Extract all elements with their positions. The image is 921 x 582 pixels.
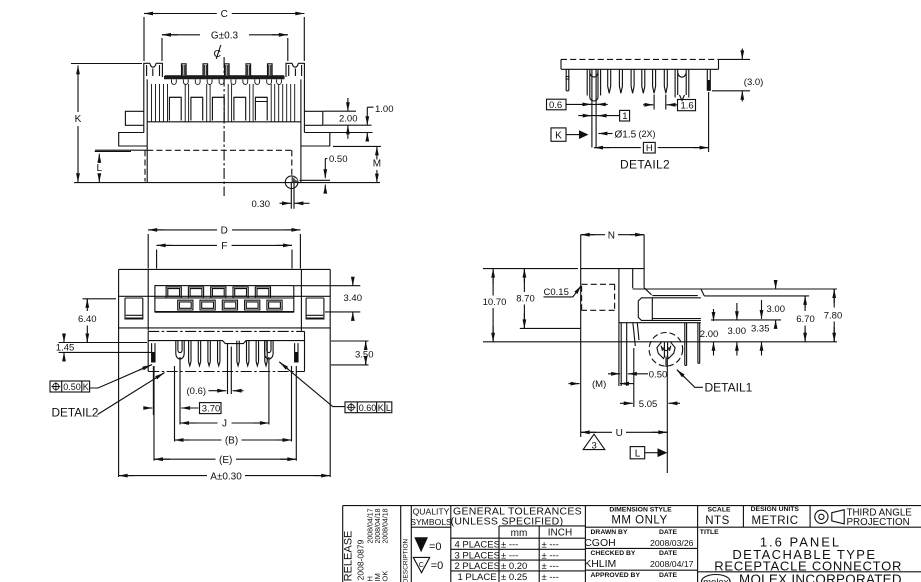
- block outline: [581, 235, 652, 437]
- dimension G±0.3: [162, 30, 288, 61]
- DETAIL2 label with leader: [52, 373, 165, 420]
- svg-text:H: H: [646, 143, 653, 154]
- dimension 1.6 boxed: [643, 95, 696, 112]
- dimension (B): [175, 366, 292, 447]
- contact row top (5 contacts): [166, 287, 270, 298]
- svg-text:(3.0): (3.0): [744, 77, 764, 88]
- lower body hidden dashed lines: [145, 150, 292, 181]
- post centerline: [666, 358, 668, 474]
- svg-text:A±0.30: A±0.30: [210, 471, 242, 482]
- dimension dia 1.5 (2X): [598, 129, 655, 140]
- svg-text:SYMBOLS: SYMBOLS: [410, 517, 452, 527]
- svg-text:7.80: 7.80: [824, 311, 843, 322]
- detail2 right edge pin: [707, 69, 710, 91]
- datum K flag: [551, 128, 589, 141]
- strip guide post right: [265, 341, 273, 359]
- hidden hole dashed: [582, 284, 615, 310]
- arm outline: [619, 289, 837, 323]
- svg-text:DESCRIPTION: DESCRIPTION: [402, 538, 409, 582]
- dimension 3.00 lower: [728, 303, 747, 356]
- svg-text:mm: mm: [511, 528, 528, 539]
- tolerance rows: [455, 540, 559, 582]
- svg-text:6.40: 6.40: [78, 314, 97, 325]
- svg-text:0.50: 0.50: [649, 370, 668, 381]
- svg-text:OK: OK: [381, 571, 390, 582]
- detail2 left small pin: [565, 69, 569, 91]
- svg-text:8.70: 8.70: [516, 294, 535, 305]
- strip left edge pin: [152, 343, 155, 362]
- svg-text:2.00: 2.00: [339, 114, 358, 125]
- svg-text:C: C: [419, 562, 424, 569]
- detail2 guide sleeve: [587, 69, 600, 101]
- svg-text:DIMENSION STYLE: DIMENSION STYLE: [609, 507, 672, 514]
- svg-text:0.6: 0.6: [549, 100, 562, 111]
- svg-text:INCH: INCH: [548, 528, 572, 539]
- dimension N: [581, 230, 644, 241]
- dimension 7.80: [824, 289, 843, 342]
- svg-text:=0: =0: [431, 560, 444, 572]
- svg-text:D: D: [221, 226, 228, 237]
- inner walls: [148, 269, 301, 330]
- svg-text:NTS: NTS: [705, 515, 730, 527]
- dimension 2.00: [324, 98, 372, 139]
- svg-text:=0: =0: [429, 541, 442, 553]
- svg-text:Ø1.5: Ø1.5: [615, 129, 637, 140]
- svg-text:L: L: [635, 448, 641, 459]
- detail2 thin pins: [608, 69, 668, 93]
- svg-text:U: U: [616, 428, 623, 439]
- svg-text:3.00: 3.00: [767, 304, 786, 315]
- svg-text:METRIC: METRIC: [751, 515, 798, 527]
- dimension 8.70: [516, 269, 581, 329]
- svg-text:2.00: 2.00: [700, 329, 719, 340]
- svg-text:10.70: 10.70: [483, 297, 507, 308]
- svg-text:1.6: 1.6: [681, 100, 694, 111]
- right clip: [286, 63, 304, 79]
- svg-text:3.70: 3.70: [202, 403, 221, 414]
- svg-text:M: M: [373, 158, 381, 169]
- dimension L: [95, 151, 131, 182]
- svg-text:L: L: [386, 403, 391, 413]
- svg-text:RELEASE: RELEASE: [343, 531, 355, 582]
- svg-text:2008/04/18: 2008/04/18: [383, 508, 390, 543]
- right notch: [306, 298, 324, 319]
- comb teeth: [152, 84, 295, 122]
- svg-text:DESIGN UNITS: DESIGN UNITS: [751, 506, 800, 513]
- svg-text:CGOH: CGOH: [584, 537, 616, 549]
- dimension 2.00 side: [700, 309, 719, 356]
- svg-text:DATE: DATE: [659, 529, 677, 536]
- bottom line of block: [483, 341, 837, 343]
- svg-text:DETAIL2: DETAIL2: [620, 157, 670, 171]
- svg-text:C0.15: C0.15: [544, 287, 569, 298]
- dimension M: [333, 146, 381, 182]
- svg-text:0.60: 0.60: [359, 403, 377, 413]
- dimension 1.45: [56, 334, 152, 362]
- svg-text:1.45: 1.45: [56, 343, 75, 354]
- svg-text:PROJECTION: PROJECTION: [847, 517, 910, 528]
- dimension 5.05: [620, 348, 680, 410]
- scale cell: [705, 506, 731, 527]
- dimension 1 boxed: [578, 110, 629, 122]
- svg-text:3.00: 3.00: [728, 326, 747, 337]
- pcb pins right of post: [685, 323, 700, 366]
- svg-text:± ---: ± ---: [542, 561, 559, 572]
- dimension (3.0): [712, 49, 763, 102]
- centerline front view: [223, 57, 225, 196]
- svg-text:DATE: DATE: [659, 550, 677, 557]
- contact row bottom (5 contacts): [178, 300, 282, 310]
- detail2 bar: [561, 59, 719, 69]
- svg-text:2008/04/17: 2008/04/17: [368, 508, 375, 543]
- svg-text:N: N: [608, 230, 615, 241]
- svg-text:J: J: [222, 419, 227, 430]
- leg wall: [621, 323, 627, 386]
- dimension 3.70 boxed: [146, 357, 222, 425]
- lower body solid lines: [74, 150, 380, 182]
- quality symbols cell: [410, 507, 452, 573]
- dimension style cell: [609, 507, 672, 527]
- dimension 3.00 upper: [767, 281, 786, 329]
- dimension J: [180, 357, 269, 430]
- svg-text:APPROVED BY: APPROVED BY: [591, 572, 641, 579]
- dimension 0.6 boxed: [547, 99, 608, 111]
- svg-text:0.50: 0.50: [63, 382, 81, 392]
- svg-text:CHECKED BY: CHECKED BY: [591, 550, 636, 557]
- DETAIL1 label with leader: [677, 370, 753, 395]
- strip guide post left: [176, 341, 184, 359]
- contact band: [164, 76, 285, 78]
- svg-text:KHLIM: KHLIM: [584, 558, 616, 570]
- dimension 0.50 front: [300, 154, 348, 193]
- svg-text:K: K: [378, 403, 384, 413]
- centerline symbol: [214, 45, 222, 60]
- svg-text:(M): (M): [592, 379, 606, 390]
- body outer rectangle: [119, 269, 331, 477]
- svg-text:3: 3: [592, 440, 597, 451]
- dimension A±0.30: [119, 471, 331, 482]
- svg-text:6.70: 6.70: [796, 314, 815, 325]
- dimension (E): [154, 366, 296, 466]
- svg-text:MOLEX INCORPORATED: MOLEX INCORPORATED: [739, 572, 902, 582]
- svg-text:G±0.3: G±0.3: [211, 30, 239, 41]
- dimension K: [71, 64, 142, 183]
- svg-text:DETAIL2: DETAIL2: [52, 406, 99, 420]
- datum L flag: [630, 447, 667, 460]
- dimension (0.6): [187, 344, 244, 397]
- svg-text:3.40: 3.40: [344, 293, 363, 304]
- housing top edge + left clip: [144, 63, 163, 79]
- dimension 10.70: [483, 269, 578, 342]
- svg-text:3 PLACES: 3 PLACES: [455, 550, 500, 561]
- svg-text:2008/04/17: 2008/04/17: [650, 559, 694, 569]
- svg-text:± ---: ± ---: [501, 540, 518, 551]
- dash-dot lower boundary of pin strip: [148, 371, 304, 373]
- svg-text:(E): (E): [219, 455, 232, 466]
- svg-text:SCALE: SCALE: [707, 506, 731, 513]
- hooks under band: [171, 79, 281, 84]
- svg-text:3.35: 3.35: [751, 324, 770, 335]
- dimension 3.40: [295, 277, 363, 321]
- svg-text:C: C: [221, 9, 228, 20]
- slanted pin near leg: [633, 323, 639, 346]
- svg-text:± 0.25: ± 0.25: [501, 572, 527, 582]
- contact block outline: [155, 286, 294, 312]
- svg-text:F: F: [221, 241, 227, 252]
- contact windows (5): [169, 97, 267, 120]
- svg-text:TITLE: TITLE: [700, 529, 719, 536]
- snap post: [649, 333, 683, 368]
- svg-text:2008/03/26: 2008/03/26: [650, 538, 694, 548]
- dash-dot upper boundary of pin strip: [148, 330, 304, 332]
- dimension 0.30: [252, 199, 310, 210]
- dimension 6.40: [78, 299, 116, 343]
- solder circle detail: [285, 176, 298, 189]
- dimension 3.50: [331, 341, 374, 365]
- svg-text:(0.6): (0.6): [187, 386, 207, 397]
- position frame 0.60 K L: [279, 362, 392, 413]
- svg-text:4 PLACES: 4 PLACES: [455, 540, 500, 551]
- dimension 3.35: [751, 300, 770, 356]
- housing side walls: [144, 79, 305, 182]
- base band and steps: [119, 122, 330, 146]
- svg-text:(B): (B): [225, 436, 238, 447]
- svg-text:(2X): (2X): [639, 129, 656, 139]
- revision flag triangle 3: [583, 434, 605, 451]
- svg-text:± ---: ± ---: [542, 550, 559, 561]
- top contact tabs (5): [182, 64, 273, 76]
- svg-text:DETAIL1: DETAIL1: [705, 380, 753, 394]
- position frame 0.50 K: [50, 365, 152, 393]
- right ear: [304, 111, 322, 125]
- svg-text:molex: molex: [703, 577, 729, 582]
- svg-text:± ---: ± ---: [542, 572, 559, 582]
- solder lead: [291, 183, 294, 209]
- dimension U: [581, 428, 668, 439]
- design units cell: [751, 506, 800, 527]
- dimension 6.70: [796, 296, 815, 342]
- svg-text:2008-0879: 2008-0879: [356, 539, 366, 580]
- svg-text:0.30: 0.30: [252, 199, 271, 210]
- detail2 right guide pin: [675, 69, 689, 100]
- title cell: [700, 529, 902, 574]
- svg-text:2 PLACES: 2 PLACES: [455, 561, 500, 572]
- svg-text:± ---: ± ---: [501, 550, 518, 561]
- left ear: [125, 111, 143, 125]
- drawn by rows: [584, 529, 693, 579]
- svg-text:K: K: [75, 114, 82, 125]
- svg-text:2008/04/18: 2008/04/18: [375, 508, 382, 543]
- svg-text:1.00: 1.00: [375, 104, 394, 115]
- title block border lines: [343, 506, 921, 582]
- general tolerances header: [451, 506, 582, 539]
- svg-text:3.50: 3.50: [355, 350, 374, 361]
- svg-text:0.50: 0.50: [329, 154, 348, 165]
- svg-text:K: K: [83, 382, 89, 392]
- dimension 0.50 side: [608, 370, 667, 381]
- svg-text:1 PLACE: 1 PLACE: [458, 572, 497, 582]
- svg-text:RECEPTACLE CONNECTOR: RECEPTACLE CONNECTOR: [714, 558, 902, 573]
- body mid lines: [119, 295, 331, 297]
- svg-text:1: 1: [622, 111, 627, 122]
- svg-text:5.05: 5.05: [639, 399, 658, 410]
- svg-text:K: K: [555, 130, 562, 141]
- dimension 1.00: [330, 104, 394, 141]
- dimension C: [144, 9, 304, 61]
- dimension H boxed: [594, 92, 709, 154]
- svg-text:DRAWN BY: DRAWN BY: [591, 529, 628, 536]
- strip right edge pin: [295, 343, 298, 362]
- detail2 long post (2x): [592, 69, 596, 147]
- body bottom line: [119, 327, 331, 329]
- svg-text:DATE: DATE: [659, 572, 677, 579]
- svg-text:MM ONLY: MM ONLY: [611, 515, 667, 527]
- left notch: [125, 298, 143, 319]
- svg-text:(UNLESS SPECIFIED): (UNLESS SPECIFIED): [451, 516, 564, 528]
- svg-text:QUALITY: QUALITY: [413, 507, 450, 517]
- dimension F: [157, 241, 292, 268]
- release column rotated texts: [343, 508, 390, 581]
- svg-text:± 0.20: ± 0.20: [501, 561, 527, 572]
- pin strip outline: [148, 331, 304, 371]
- dimension (M): [569, 379, 634, 390]
- C0.15 chamfer callout: [544, 286, 582, 298]
- arm slot window: [638, 298, 652, 321]
- molex logo: [702, 575, 731, 582]
- svg-text:L: L: [97, 163, 103, 174]
- dimension D: [148, 226, 300, 269]
- strip thin pins: [189, 341, 268, 366]
- svg-text:± ---: ± ---: [542, 540, 559, 551]
- third angle projection cell: [815, 507, 912, 528]
